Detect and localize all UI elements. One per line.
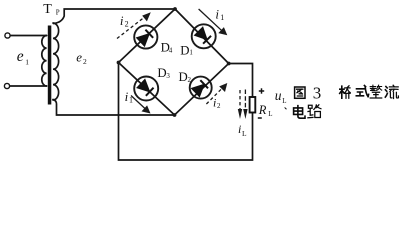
svg-text:D: D — [179, 70, 188, 84]
svg-text:D: D — [157, 66, 166, 80]
svg-text:i: i — [213, 96, 216, 110]
svg-text:i: i — [238, 122, 241, 136]
svg-text:L: L — [268, 110, 272, 118]
svg-text:L: L — [242, 129, 247, 138]
svg-text:3: 3 — [313, 84, 322, 103]
svg-text:e: e — [17, 48, 24, 65]
svg-text:2: 2 — [217, 102, 221, 110]
svg-text:3: 3 — [166, 72, 170, 80]
svg-text:1: 1 — [25, 58, 29, 67]
svg-text:2: 2 — [83, 57, 87, 66]
svg-text:1: 1 — [220, 13, 224, 22]
svg-text:4: 4 — [169, 46, 173, 54]
svg-text:i: i — [120, 13, 124, 28]
svg-text:2: 2 — [125, 20, 129, 29]
svg-text:P: P — [56, 9, 60, 17]
svg-text:i: i — [125, 89, 129, 104]
svg-text:1: 1 — [189, 49, 193, 57]
svg-text:1: 1 — [129, 96, 133, 105]
svg-text:D: D — [180, 43, 189, 57]
svg-text:R: R — [258, 103, 267, 117]
svg-text:T: T — [43, 2, 52, 17]
svg-text:e: e — [76, 49, 82, 64]
svg-text:i: i — [215, 7, 219, 22]
svg-text:2: 2 — [188, 76, 192, 84]
svg-text:u: u — [275, 88, 282, 103]
svg-text:L: L — [282, 97, 286, 105]
